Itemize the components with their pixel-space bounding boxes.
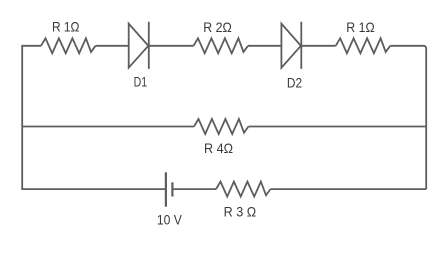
svg-text:D1: D1 xyxy=(134,74,148,90)
wire bottom left segment xyxy=(21,188,166,190)
wire middle right segment xyxy=(249,126,427,128)
wire D2 to right resistor xyxy=(301,45,335,47)
wire battery to R3 xyxy=(174,188,217,190)
diode D2 xyxy=(281,22,301,69)
svg-text:10 V: 10 V xyxy=(157,211,183,227)
wire left vertical xyxy=(21,46,23,189)
battery V1 short plate xyxy=(171,182,173,196)
diode D1 xyxy=(129,22,149,69)
svg-text:R 2Ω: R 2Ω xyxy=(203,19,232,35)
svg-text:R 1Ω: R 1Ω xyxy=(52,19,80,35)
wire top-right segment with rounded corner and right vertical xyxy=(390,46,426,189)
svg-text:D2: D2 xyxy=(287,74,302,90)
resistor R1 (top left, R 1Ω) xyxy=(41,38,96,53)
resistor R3 (R 3 Ω) xyxy=(216,182,271,197)
wire R2 to D2 xyxy=(248,45,281,47)
wire D1 to R2 xyxy=(149,45,194,47)
svg-text:R 4Ω: R 4Ω xyxy=(204,140,233,156)
wire bottom right segment xyxy=(271,188,427,190)
resistor R5 (top right, R 1Ω) xyxy=(336,38,391,53)
battery V1 long plate xyxy=(165,172,167,206)
resistor R2 (R 2Ω) xyxy=(194,38,249,53)
wire top-left segment xyxy=(21,45,41,47)
wire R1 to D1 xyxy=(96,45,129,47)
svg-text:R 3 Ω: R 3 Ω xyxy=(224,204,257,220)
resistor R4 (R 4Ω) xyxy=(194,119,249,134)
wire middle left segment xyxy=(22,126,194,128)
svg-text:R 1Ω: R 1Ω xyxy=(346,19,374,35)
